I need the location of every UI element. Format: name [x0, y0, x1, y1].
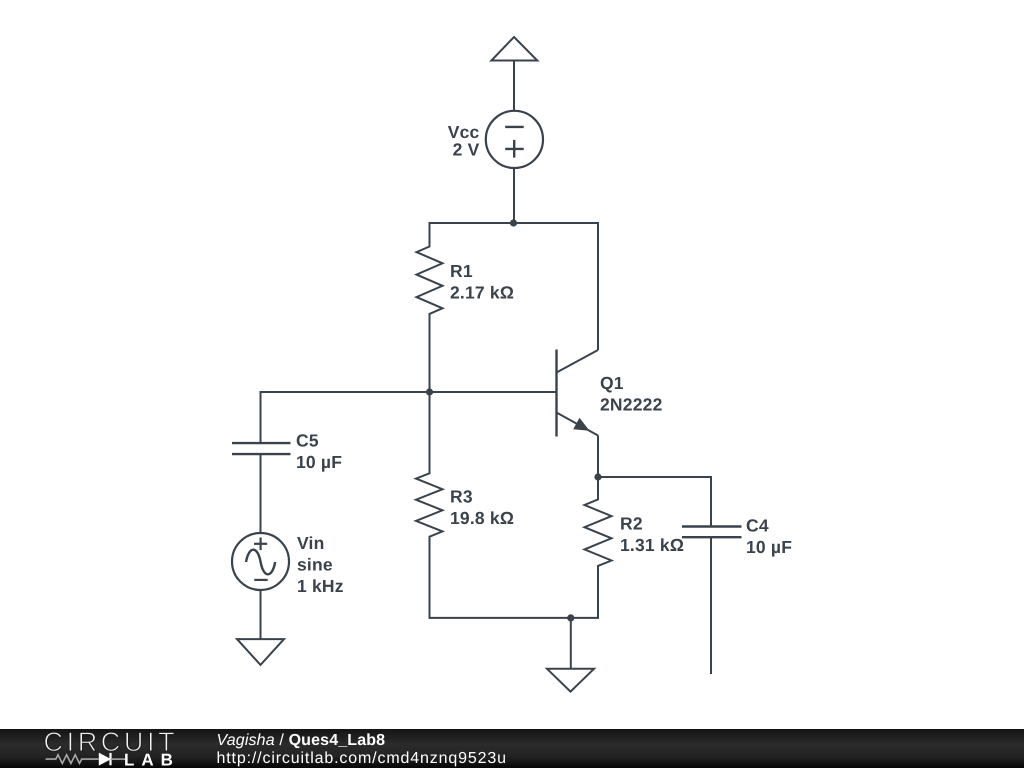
resistor R1 [417, 222, 443, 392]
voltage source Vin [232, 533, 289, 590]
logo resistor-diode art [46, 753, 126, 765]
svg-text:Vin: Vin [297, 533, 325, 553]
svg-text:Vagisha / Ques4_Lab8: Vagisha / Ques4_Lab8 [217, 732, 386, 749]
svg-text:Q1: Q1 [600, 373, 624, 393]
transistor Q1 [557, 222, 599, 477]
wire base to C5 [260, 391, 262, 443]
svg-text:1 kHz: 1 kHz [297, 576, 344, 596]
capacitor C5 [232, 443, 291, 454]
node top junction [510, 219, 517, 226]
resistor R3 [416, 392, 443, 619]
node base junction [426, 388, 433, 395]
svg-text:10 µF: 10 µF [296, 452, 342, 472]
wire base rail [261, 391, 557, 393]
svg-text:2N2222: 2N2222 [600, 395, 663, 415]
svg-text:19.8 kΩ: 19.8 kΩ [450, 508, 514, 528]
resistor R2 [585, 477, 612, 619]
power symbol VCC arrow [491, 37, 537, 112]
svg-text:sine: sine [297, 555, 333, 575]
wire Vcc to node [513, 168, 515, 224]
svg-text:http://circuitlab.com/cmd4nznq: http://circuitlab.com/cmd4nznq9523u [217, 750, 507, 767]
node ground junction [567, 614, 574, 621]
wire top rail [429, 222, 600, 224]
wire to ground right [570, 618, 572, 669]
voltage source Vcc [486, 111, 543, 168]
svg-text:R3: R3 [450, 487, 473, 507]
wire Vin to ground [260, 590, 262, 639]
wire bottom rail [429, 617, 600, 619]
svg-text:10 µF: 10 µF [746, 537, 792, 557]
capacitor C4 [682, 527, 742, 675]
svg-text:C5: C5 [296, 431, 319, 451]
wire C5 to Vin [260, 454, 262, 533]
svg-text:1.31 kΩ: 1.31 kΩ [620, 535, 684, 555]
wire emitter to C4 [598, 477, 711, 527]
svg-text:R1: R1 [450, 261, 473, 281]
ground left [237, 639, 284, 665]
svg-text:LAB: LAB [124, 751, 180, 768]
svg-text:2.17 kΩ: 2.17 kΩ [450, 283, 514, 303]
svg-text:C4: C4 [746, 516, 769, 536]
svg-text:R2: R2 [620, 514, 643, 534]
svg-text:2 V: 2 V [453, 140, 480, 160]
ground right [547, 669, 594, 692]
node emitter junction [594, 473, 601, 480]
